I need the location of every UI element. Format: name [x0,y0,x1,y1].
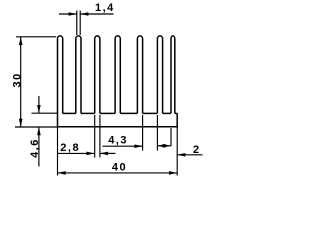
dim 4,3: left extension line (fin5 right side extended) [142,115,144,151]
svg-text:2: 2 [193,144,201,156]
dim 2,8: left dimension tail from fin1 [58,152,95,154]
dim 4,3: right extension line (fin6 left side extended) [156,115,158,151]
arrowhead 2 right (left-pointing on landing line) [177,153,185,157]
arrowhead 4,3 left (right-pointing) [134,144,142,148]
valley 4 [120,112,137,114]
arrowhead 40 right [169,171,177,175]
svg-text:4,3: 4,3 [108,134,128,146]
fin 4 [115,36,120,114]
valley 5 [143,112,158,114]
arrowhead 30 bottom (down) [19,119,23,127]
arrowhead 2,8 left (right-pointing) [87,152,95,156]
dim 2,8: right extension line (fin3 right side extended) [99,115,101,158]
arrowhead 2 left (right-pointing at fin7 right) [163,144,171,148]
dim 4,3: left dimension tail [103,145,143,147]
dim 1,4: right extension line [79,11,81,36]
arrowhead 2,8 right (left-pointing) [100,152,108,156]
valley 7 (right margin) [175,112,177,114]
dim 2: fin7 right side extension line [170,128,172,146]
valley 2 [81,112,95,114]
fin 5 [137,36,142,113]
dim 2,8: fin1 left side extension line [57,127,59,176]
dim 4,6: top extension line [32,112,58,114]
dim 4,6: dimension line lower tail [38,127,40,167]
fin 1 (left edge fin) [58,36,63,114]
svg-text:1,4: 1,4 [95,2,115,14]
arrowhead 4,6 bottom (up, outside) [37,127,41,135]
dim 4,6: dimension line upper tail [38,96,40,113]
svg-text:4,6: 4,6 [29,138,41,158]
dim 40: dimension line [58,172,178,174]
arrowhead 30 top (up) [19,37,23,45]
dim 30: top extension line [16,36,56,38]
arrowhead 40 left [58,171,66,175]
fin 3 [95,36,100,114]
svg-text:40: 40 [112,161,127,173]
valley 3 [100,112,115,114]
dim 4,3 / dim 2: shared middle tail [157,145,171,147]
valley 1 [63,112,76,114]
dim 2: right edge extension line [176,127,178,176]
dim 2,8: left extension line (fin3 left side extended) [94,115,96,158]
dim 2: text landing line [177,154,202,156]
heatsink outline: base bottom [58,39,178,127]
arrowhead 4,3 right (left-pointing) [157,144,165,148]
fin 6 [157,36,162,114]
fin 7 (right small fin) [171,36,175,114]
dim 30: bottom extension line (shared with 4,6) [15,126,58,128]
arrowhead 1,4 left (right-pointing) [69,12,77,16]
svg-text:2,8: 2,8 [60,142,80,154]
dim 2,8: right dimension tail [100,152,116,154]
svg-text:30: 30 [11,72,23,87]
fin 2 [76,36,81,113]
dim 1,4: left extension line [76,11,78,36]
dim 1,4: right dimension tail [80,13,113,15]
arrowhead 1,4 right (left-pointing) [80,12,88,16]
dim 1,4: left dimension tail [59,13,77,15]
arrowhead 4,6 top (down, outside) [37,105,41,113]
dim 30: vertical dimension line [20,37,22,127]
valley 6 [163,112,171,114]
